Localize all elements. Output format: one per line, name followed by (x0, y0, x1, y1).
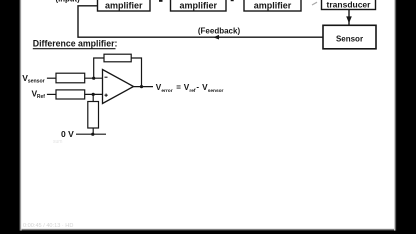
svg-text:Sensor: Sensor (336, 35, 363, 44)
svg-text:0:00:45 / 40:13 · HD: 0:00:45 / 40:13 · HD (23, 223, 73, 229)
svg-text:amplifier: amplifier (180, 0, 218, 10)
svg-text:amplifier: amplifier (254, 0, 292, 10)
svg-text:Ref: Ref (37, 94, 45, 100)
svg-text:sensor: sensor (28, 78, 45, 84)
svg-text:(Feedback): (Feedback) (198, 26, 241, 35)
svg-text:(Input): (Input) (56, 0, 81, 3)
svg-text:transducer: transducer (327, 0, 372, 10)
svg-text:-: - (196, 83, 199, 92)
svg-text:sensor: sensor (208, 88, 224, 94)
svg-text:Difference amplifier:: Difference amplifier: (33, 39, 118, 49)
svg-text:error: error (161, 88, 172, 94)
svg-text:0 V: 0 V (61, 129, 74, 139)
svg-text:amplifier: amplifier (105, 0, 143, 10)
svg-text:ref: ref (189, 88, 196, 94)
svg-text:sum: sum (53, 139, 62, 145)
svg-text:=: = (176, 83, 181, 92)
